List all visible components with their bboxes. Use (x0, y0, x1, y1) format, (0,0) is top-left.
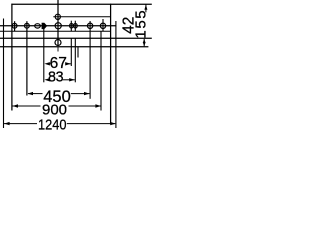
svg-text:900: 900 (42, 101, 67, 118)
svg-text:83: 83 (48, 69, 64, 85)
svg-text:1240: 1240 (38, 118, 67, 134)
svg-text:155: 155 (133, 9, 150, 39)
